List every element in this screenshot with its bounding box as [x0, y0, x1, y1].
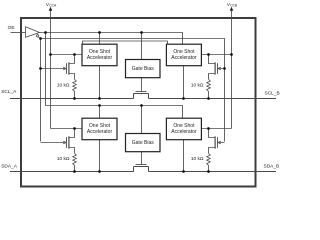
svg-text:SDA_A: SDA_A	[1, 164, 18, 170]
svg-text:SCL_B: SCL_B	[265, 90, 280, 96]
svg-text:CCA: CCA	[49, 4, 57, 8]
svg-text:Accelerator: Accelerator	[171, 55, 197, 61]
svg-text:Accelerator: Accelerator	[171, 129, 197, 135]
svg-text:10 kΩ: 10 kΩ	[57, 156, 70, 162]
svg-text:CCB: CCB	[230, 4, 238, 8]
svg-text:10 kΩ: 10 kΩ	[191, 83, 204, 89]
svg-text:One Shot: One Shot	[89, 49, 111, 55]
svg-text:SDA_B: SDA_B	[264, 164, 280, 170]
svg-text:Gate Bias: Gate Bias	[132, 66, 154, 72]
svg-text:One Shot: One Shot	[173, 123, 195, 129]
svg-text:10 kΩ: 10 kΩ	[191, 156, 204, 162]
svg-text:OE: OE	[8, 25, 15, 31]
svg-text:Accelerator: Accelerator	[87, 55, 113, 61]
svg-text:Accelerator: Accelerator	[87, 129, 113, 135]
svg-text:10 kΩ: 10 kΩ	[57, 83, 70, 89]
svg-text:Gate Bias: Gate Bias	[132, 140, 154, 146]
svg-text:One Shot: One Shot	[173, 49, 195, 55]
svg-text:SCL_A: SCL_A	[1, 89, 17, 95]
svg-text:One Shot: One Shot	[89, 123, 111, 129]
